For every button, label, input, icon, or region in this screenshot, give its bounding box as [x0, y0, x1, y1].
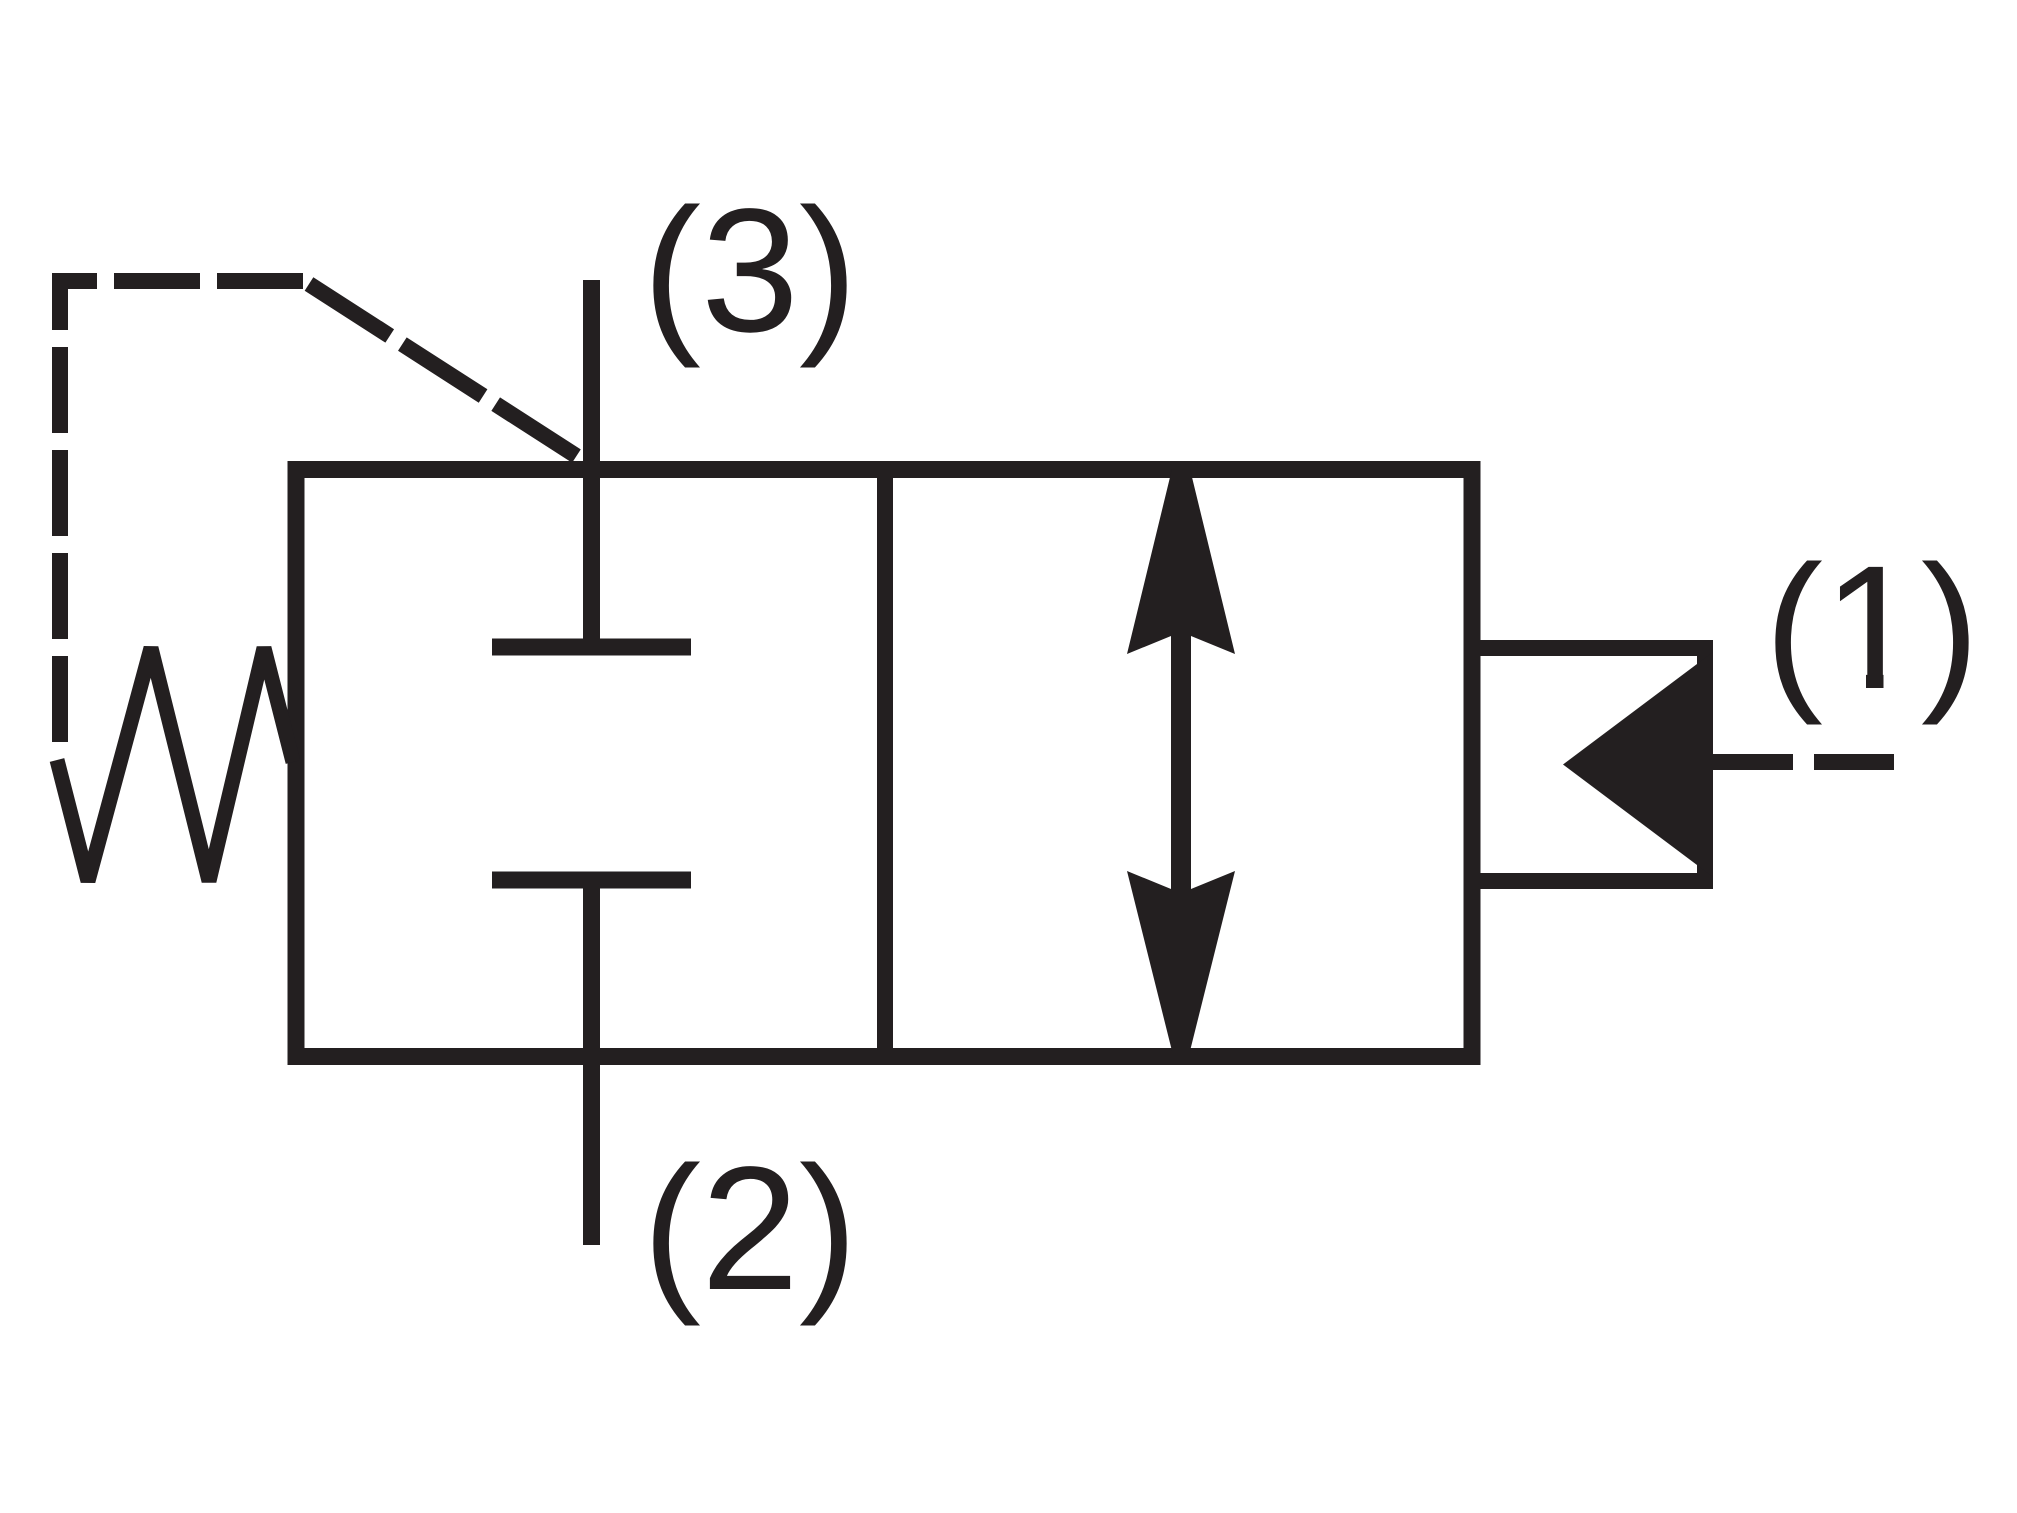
svg-text:(3): (3)	[642, 173, 857, 369]
svg-text:(1): (1)	[1764, 530, 1979, 726]
svg-text:(2): (2)	[642, 1131, 857, 1327]
